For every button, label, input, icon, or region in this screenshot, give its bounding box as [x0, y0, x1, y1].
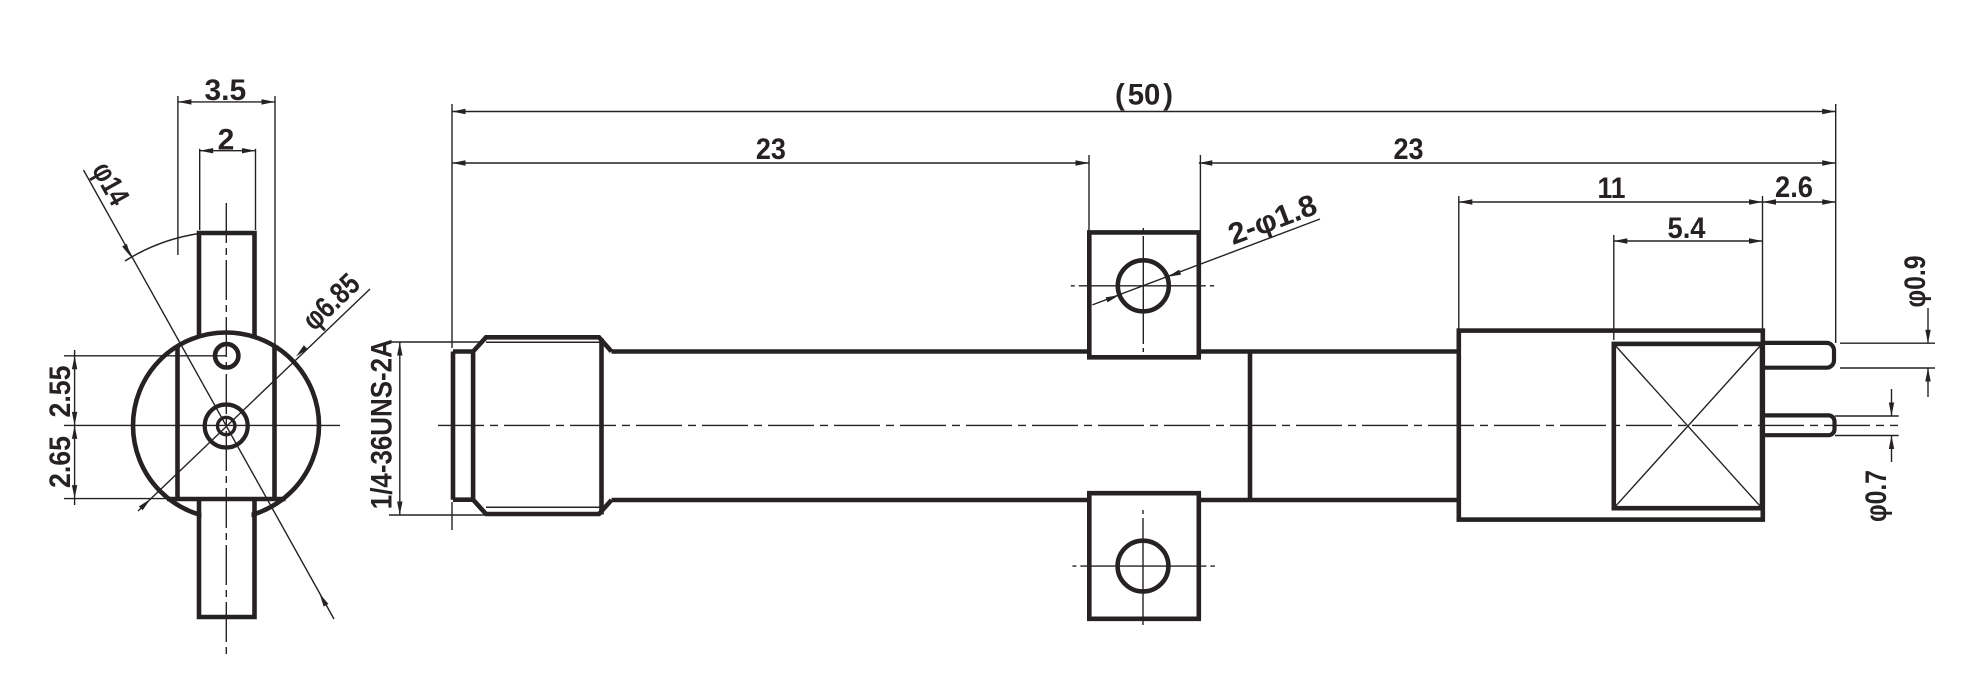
- dim 3.5: [178, 96, 275, 346]
- mask inside bottom tab hiding circle arc: [202, 502, 252, 615]
- dim 2: [200, 149, 256, 230]
- svg-text:2.55: 2.55: [44, 366, 77, 418]
- phi14 tip arc: [125, 234, 199, 262]
- dim 2.55 / 2.65 extension lines: [64, 350, 227, 505]
- thread end face line: [599, 339, 604, 515]
- pin phi0.7: [1763, 415, 1835, 435]
- dim 23 left: [452, 155, 1089, 232]
- front nose cylinder: [453, 352, 473, 500]
- svg-text:2-φ1.8: 2-φ1.8: [1224, 188, 1322, 251]
- main axis centerline: [438, 424, 1898, 426]
- thread section outline with chamfers: [473, 337, 611, 514]
- dim 2.6: [1763, 201, 1836, 203]
- dim phi0.7: [1835, 389, 1899, 462]
- svg-text:3.5: 3.5: [204, 74, 246, 107]
- phi14 leader line: [84, 170, 335, 619]
- bottom hole centerlines: [1072, 565, 1215, 567]
- rear body cylinder phi6.85: [1459, 331, 1763, 520]
- thread minor diameter lines: [486, 342, 602, 507]
- body circle phi6.85: [133, 333, 319, 519]
- insulator square: [1614, 344, 1762, 508]
- flat chords width 3.5: [178, 346, 275, 499]
- dim 23 right: [1199, 155, 1836, 232]
- svg-text:11: 11: [1598, 172, 1626, 205]
- top small hole: [215, 344, 238, 367]
- svg-text:φ0.7: φ0.7: [1860, 470, 1893, 522]
- svg-text:2: 2: [218, 123, 235, 156]
- dim 11: [1459, 196, 1763, 330]
- svg-text:2.6: 2.6: [1775, 171, 1813, 204]
- center hole outer: [205, 405, 248, 448]
- dim (50): [452, 104, 1836, 530]
- top hole centerlines: [1071, 285, 1214, 287]
- leader 2-phi1.8: [1092, 219, 1320, 305]
- insulator cross lines: [1614, 344, 1762, 508]
- bottom flat line: [167, 497, 286, 502]
- center hole inner: [218, 417, 235, 434]
- svg-text:23: 23: [756, 133, 786, 166]
- horizontal centerline front view / ext of 2.55-2.65: [64, 424, 340, 426]
- svg-text:2.65: 2.65: [44, 436, 77, 488]
- bottom tab: [197, 499, 257, 617]
- dim 5.4: [1614, 235, 1763, 340]
- svg-text:(50): (50): [1115, 79, 1173, 112]
- barrel step line: [1248, 352, 1253, 501]
- svg-text:φ0.9: φ0.9: [1899, 256, 1932, 308]
- svg-text:5.4: 5.4: [1668, 212, 1706, 245]
- top mounting lug: [1087, 232, 1201, 357]
- top tab: [197, 233, 257, 338]
- thread spec dim lines: [389, 342, 484, 515]
- svg-text:φ14: φ14: [85, 157, 135, 212]
- bottom lug hole 2-phi1.8: [1118, 541, 1169, 592]
- dim phi0.9: [1840, 308, 1935, 397]
- vertical centerline front view: [225, 203, 227, 655]
- bottom mounting lug: [1087, 493, 1201, 619]
- phi6.85 leader line: [138, 289, 370, 511]
- top lug hole 2-phi1.8: [1118, 260, 1169, 311]
- svg-text:1/4-36UNS-2A: 1/4-36UNS-2A: [366, 339, 399, 509]
- barrel outline: [612, 352, 1459, 501]
- pin phi0.9: [1763, 343, 1834, 368]
- svg-text:23: 23: [1394, 133, 1424, 166]
